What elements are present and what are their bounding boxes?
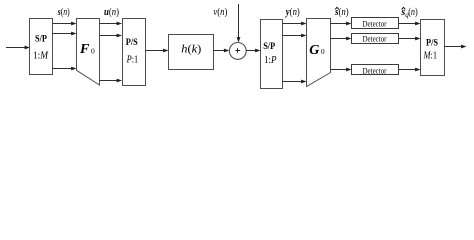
block G0 receive filter bank trapezoid (307, 19, 331, 87)
wire F0 to P/S line 1 (100, 22, 123, 26)
svg-text:1:P: 1:P (264, 54, 277, 66)
adder summing junction (229, 43, 246, 60)
node label s-hat-q(n) (400, 7, 417, 19)
block P/S M:1 parallel-to-serial (421, 20, 445, 76)
block detector 1 (352, 18, 399, 29)
wire h(k) to adder (214, 49, 230, 53)
svg-text:0: 0 (321, 47, 325, 56)
wire G0 to detector 1 (331, 22, 352, 26)
svg-text:F: F (79, 42, 90, 57)
wire P/S to channel h(k) (146, 49, 169, 53)
wire S/P to G0 line 2 (283, 34, 307, 38)
svg-text:(n): (n) (408, 7, 418, 18)
block S/P 1:P serial-to-parallel (261, 20, 283, 89)
svg-text:P/S: P/S (426, 37, 438, 47)
wire F0 to P/S line 2 (100, 34, 123, 38)
svg-text:s(n): s(n) (57, 7, 70, 18)
svg-text:Detector: Detector (363, 65, 387, 75)
block S/P 1:M serial-to-parallel (30, 19, 53, 75)
wire detector 3 to P/S M:1 (399, 68, 421, 72)
wire detector 2 to P/S M:1 (399, 37, 421, 41)
block detector 2 (352, 34, 399, 44)
svg-text:Detector: Detector (363, 34, 387, 44)
wire v(n) noise branch down into adder (237, 4, 241, 43)
svg-text:S/P: S/P (35, 34, 47, 44)
node label s-hat(n) (334, 7, 348, 18)
svg-text:P/S: P/S (126, 37, 138, 47)
wire F0 to P/S line 3 (100, 79, 123, 83)
svg-text:h(k): h(k) (181, 44, 201, 56)
wire adder to S/P 1:P (246, 49, 260, 53)
svg-text:y(n): y(n) (285, 7, 300, 18)
svg-text:Detector: Detector (363, 18, 387, 28)
block detector 3 (352, 65, 399, 76)
wire S/P to F0 line 2 (53, 32, 77, 36)
svg-text:v(n): v(n) (213, 7, 227, 18)
block P/S P:1 parallel-to-serial (123, 19, 146, 86)
svg-text:S/P: S/P (263, 41, 275, 51)
svg-text:G: G (309, 43, 319, 58)
svg-text:1:M: 1:M (33, 49, 49, 61)
block F0 transmit filter bank trapezoid (77, 19, 100, 86)
wire S/P to F0 line 3 (53, 67, 77, 71)
block channel h(k) (169, 35, 214, 70)
svg-text:u(n): u(n) (104, 7, 119, 18)
wire input arrow into S/P 1:M (6, 46, 30, 50)
wire S/P to G0 line 1 (283, 22, 307, 26)
wire G0 to detector 2 (331, 37, 352, 41)
svg-text:s(n): s(n) (334, 7, 348, 18)
wire detector 1 to P/S M:1 (399, 22, 421, 26)
wire S/P to F0 line 1 (53, 22, 77, 26)
wire output arrow (445, 45, 467, 49)
svg-text:M:1: M:1 (423, 49, 437, 61)
svg-text:0: 0 (91, 46, 95, 55)
wire G0 to detector 3 (331, 68, 352, 72)
svg-text:P:1: P:1 (126, 53, 138, 65)
wire S/P to G0 line 3 (283, 80, 307, 84)
